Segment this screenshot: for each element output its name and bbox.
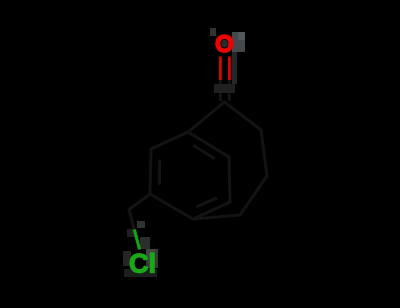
svg-text:O: O xyxy=(215,31,234,58)
svg-text:Cl: Cl xyxy=(129,249,156,279)
